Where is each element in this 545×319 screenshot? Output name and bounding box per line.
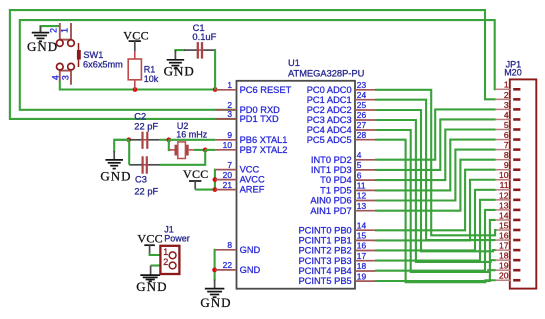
svg-text:22 pF: 22 pF — [134, 186, 158, 196]
wire GND2 to C1 — [175, 50, 185, 52]
svg-text:16 mHz: 16 mHz — [176, 130, 208, 140]
IC U1 ATMEGA328P-PU body — [237, 81, 356, 289]
label Power — [164, 234, 190, 244]
svg-text:PCINT5 PB5: PCINT5 PB5 — [298, 276, 351, 286]
wire XTAL1 node to IC pin9 — [169, 139, 216, 141]
label J1 — [164, 225, 174, 235]
wire IC pin 24 to JP1 pin 16 — [375, 100, 496, 240]
junction at AREF pin21 — [213, 187, 218, 192]
JP1 pin 10 — [495, 170, 520, 180]
svg-text:GND: GND — [240, 265, 261, 275]
wire IC pin 13 to JP1 pin 8 — [375, 160, 496, 211]
pin number 1 of SW1 — [60, 28, 70, 33]
IC U1 pin 17 PCINT3 PB3 (right) — [298, 251, 375, 266]
svg-text:INT0 PD2: INT0 PD2 — [311, 155, 352, 165]
wire IC pin 18 to JP1 pin 13 — [375, 210, 496, 271]
IC U1 pin 14 PCINT0 PB0 (right) — [298, 220, 375, 235]
svg-text:GND: GND — [240, 245, 261, 255]
IC U1 pin 7 VCC (left) — [215, 160, 259, 175]
label 22 pF C3 — [134, 186, 158, 196]
svg-text:VCC: VCC — [183, 167, 209, 181]
svg-text:28: 28 — [357, 130, 367, 140]
power VCC3 symbol (at J1) — [137, 231, 163, 254]
svg-text:16: 16 — [499, 230, 509, 240]
capacitor C1 0.1uF — [184, 42, 215, 59]
IC U1 pin 21 AREF (left) — [215, 180, 264, 195]
svg-text:PC4 ADC4: PC4 ADC4 — [307, 125, 352, 135]
svg-text:17: 17 — [499, 241, 509, 251]
label C2 — [134, 112, 146, 122]
wire IC pin 16 to JP1 pin 11 — [375, 190, 496, 251]
svg-text:PCINT4 PB4: PCINT4 PB4 — [298, 266, 351, 276]
power VCC2 symbol — [183, 167, 209, 189]
svg-text:7: 7 — [227, 160, 232, 170]
svg-text:16: 16 — [357, 241, 367, 251]
connector JP1 M20 body — [510, 79, 537, 288]
svg-text:14: 14 — [357, 220, 367, 230]
power VCC1 symbol — [123, 28, 149, 51]
wire VCC3 to J1 pin1 — [150, 253, 161, 255]
svg-text:2: 2 — [163, 257, 168, 267]
wire IC pin 4 to JP1 pin 3 — [375, 109, 496, 159]
junction node XTAL1 — [166, 137, 171, 142]
svg-text:23: 23 — [357, 80, 367, 90]
wire C3 to C2 junction riser — [128, 140, 130, 165]
IC U1 pin 4 INT0 PD2 (right) — [311, 150, 375, 165]
wire XTAL2 node down to C3 — [160, 150, 206, 165]
JP1 pin 7 — [495, 140, 520, 150]
svg-text:PC6 RESET: PC6 RESET — [240, 85, 292, 95]
svg-text:GND: GND — [100, 168, 131, 183]
JP1 pin 20 — [495, 271, 520, 281]
svg-text:20: 20 — [499, 271, 509, 281]
label 0.1uF — [192, 31, 216, 42]
label JP1 — [506, 59, 522, 69]
svg-text:10k: 10k — [144, 74, 159, 84]
J1 pin 2 — [163, 257, 176, 269]
label U1 — [288, 58, 300, 68]
svg-text:PC5 ADC5: PC5 ADC5 — [307, 135, 352, 145]
wire IC pin 6 to JP1 pin 5 — [375, 130, 496, 181]
svg-text:PC2 ADC2: PC2 ADC2 — [307, 105, 352, 115]
JP1 pin 19 — [495, 261, 520, 271]
label U2 — [177, 121, 189, 131]
wire IC pin 17 to JP1 pin 12 — [375, 200, 496, 261]
JP1 pin 4 — [495, 110, 520, 120]
JP1 pin 3 — [495, 100, 520, 110]
svg-text:VCC: VCC — [240, 165, 260, 175]
label 10k — [144, 74, 159, 84]
IC U1 pin 9 PB6 XTAL1 (left) — [215, 130, 287, 145]
wire net RXD from IC pin2 around left/top to JP1 pin1 — [20, 20, 496, 110]
svg-text:PC3 ADC3: PC3 ADC3 — [307, 115, 352, 125]
svg-text:10: 10 — [499, 170, 509, 180]
junction left of C2 — [126, 137, 131, 142]
svg-text:C2: C2 — [134, 112, 146, 122]
junction at AVCC pin20 — [213, 177, 218, 182]
wire IC pin 27 to JP1 pin 19 (jog) — [375, 130, 496, 272]
label 6x6x5mm — [83, 60, 123, 70]
svg-text:PCINT0 PB0: PCINT0 PB0 — [298, 225, 351, 235]
wire crystal to XTAL2 node — [194, 149, 205, 151]
svg-text:4: 4 — [50, 75, 60, 80]
svg-text:15: 15 — [499, 220, 509, 230]
wire IC pin 25 to JP1 pin 17 (jog) — [375, 110, 496, 251]
svg-text:12: 12 — [357, 191, 367, 201]
svg-text:6: 6 — [357, 170, 362, 180]
svg-text:PC1 ADC1: PC1 ADC1 — [307, 95, 352, 105]
wire from GND1 to switch pin2 — [41, 26, 60, 32]
capacitor C3 22pF — [129, 156, 159, 173]
svg-text:SW1: SW1 — [83, 50, 103, 60]
svg-text:PD1 TXD: PD1 TXD — [240, 114, 279, 124]
ground GND5 (at J1) — [136, 266, 167, 295]
svg-text:PC0 ADC0: PC0 ADC0 — [307, 85, 352, 95]
svg-text:19: 19 — [357, 271, 367, 281]
svg-text:VCC: VCC — [123, 28, 149, 42]
svg-text:GND: GND — [136, 279, 167, 294]
JP1 pin 8 — [495, 150, 520, 160]
junction at R1 bottom — [133, 87, 138, 92]
ground GND2 (at C1) — [164, 50, 195, 78]
wire IC pin 19 to JP1 pin 14 — [375, 220, 496, 281]
wire IC pin 12 to JP1 pin 7 — [375, 150, 496, 201]
label M20 — [504, 68, 522, 78]
IC U1 pin 5 INT1 PD3 (right) — [311, 160, 375, 175]
IC U1 pin 27 PC4 ADC4 (right) — [307, 120, 375, 135]
label C3 — [135, 175, 147, 185]
svg-text:2: 2 — [49, 28, 59, 33]
crystal U2 16 mHz — [170, 142, 194, 159]
IC U1 pin 19 PCINT5 PB5 (right) — [298, 271, 375, 286]
svg-text:AVCC: AVCC — [240, 175, 265, 185]
IC U1 pin 22 GND (left) — [215, 260, 260, 275]
JP1 pin 12 — [495, 190, 520, 200]
JP1 pin 9 — [495, 160, 520, 170]
JP1 pin 17 — [495, 241, 520, 251]
svg-text:10: 10 — [223, 140, 233, 150]
wire C2 junction to mid GND — [114, 140, 129, 152]
JP1 pin 18 — [495, 251, 520, 261]
resistor R1 10k — [128, 51, 141, 89]
svg-text:1: 1 — [504, 80, 509, 90]
svg-text:11: 11 — [500, 180, 509, 190]
label C1 — [193, 22, 205, 33]
svg-text:6x6x5mm: 6x6x5mm — [83, 60, 123, 70]
IC U1 pin 1 PC6 RESET (left) — [215, 80, 291, 95]
svg-text:1: 1 — [163, 247, 168, 257]
pin number 2 of SW1 — [49, 28, 59, 33]
IC U1 pin 23 PC0 ADC0 (right) — [307, 80, 375, 95]
IC U1 pin 10 PB7 XTAL2 (left) — [215, 140, 287, 155]
wire VCC2 to AREF row — [195, 189, 215, 191]
svg-text:1: 1 — [227, 80, 232, 90]
svg-text:7: 7 — [504, 140, 509, 150]
IC U1 pin 11 T1 PD5 (right) — [320, 181, 375, 196]
JP1 pin 15 — [495, 220, 520, 230]
JP1 pin 2 — [495, 90, 520, 100]
wire IC pin 14 to JP1 pin 9 — [375, 170, 496, 231]
JP1 pin 6 — [495, 130, 520, 140]
svg-text:13: 13 — [499, 200, 509, 210]
svg-text:8: 8 — [227, 240, 232, 250]
IC U1 pin 6 T0 PD4 (right) — [320, 170, 375, 185]
svg-text:5: 5 — [357, 160, 362, 170]
svg-text:17: 17 — [357, 251, 367, 261]
svg-text:4: 4 — [504, 110, 509, 120]
IC U1 pin 13 AIN1 PD7 (right) — [310, 201, 375, 216]
wire XTAL1 node down to crystal — [169, 140, 171, 150]
JP1 pin 13 — [495, 200, 520, 210]
ground GND3 (mid left) — [100, 151, 131, 183]
wire GND riser pins 8-22 — [214, 250, 217, 281]
svg-text:VCC: VCC — [137, 231, 163, 245]
wire C1 to IC pin1 junction — [214, 50, 216, 89]
svg-text:T0 PD4: T0 PD4 — [320, 175, 352, 185]
JP1 pin 1 — [495, 80, 520, 90]
svg-text:18: 18 — [499, 251, 509, 261]
svg-text:4: 4 — [357, 150, 362, 160]
svg-text:INT1 PD3: INT1 PD3 — [311, 165, 352, 175]
IC U1 pin 3 PD1 TXD (left) — [215, 109, 279, 124]
ground GND1 (top-left) — [27, 26, 58, 54]
svg-text:1: 1 — [60, 28, 70, 33]
IC U1 pin 24 PC1 ADC1 (right) — [307, 90, 375, 105]
svg-text:27: 27 — [357, 120, 367, 130]
connector J1 Power box — [160, 246, 179, 274]
IC U1 pin 16 PCINT2 PB2 (right) — [298, 241, 375, 256]
svg-text:PB6 XTAL1: PB6 XTAL1 — [240, 135, 288, 145]
svg-text:PB7 XTAL2: PB7 XTAL2 — [240, 145, 288, 155]
wire IC pin 28 to JP1 pin 20 (jog) — [375, 140, 496, 283]
J1 pin 1 — [163, 247, 176, 259]
JP1 pin 5 — [495, 120, 520, 130]
svg-text:AIN1 PD7: AIN1 PD7 — [310, 206, 351, 216]
wire IC pin 26 to JP1 pin 18 (jog) — [375, 120, 496, 262]
svg-text:19: 19 — [499, 261, 509, 271]
IC U1 pin 20 AVCC (left) — [215, 170, 265, 185]
svg-text:11: 11 — [357, 181, 366, 191]
svg-text:3: 3 — [504, 100, 509, 110]
svg-text:U1: U1 — [288, 58, 300, 68]
IC U1 pin 2 PD0 RXD (left) — [215, 100, 280, 115]
svg-text:26: 26 — [357, 110, 367, 120]
wire IC pin 5 to JP1 pin 4 — [375, 119, 496, 169]
svg-text:AIN0 PD6: AIN0 PD6 — [310, 196, 351, 206]
svg-text:2: 2 — [504, 90, 509, 100]
svg-text:9: 9 — [504, 160, 509, 170]
wire VCC riser pins 7-20-21 — [214, 170, 217, 190]
svg-text:8: 8 — [504, 150, 509, 160]
svg-text:M20: M20 — [504, 68, 522, 78]
svg-text:PCINT3 PB3: PCINT3 PB3 — [298, 256, 351, 266]
capacitor C2 22pF — [129, 132, 160, 149]
svg-text:21: 21 — [223, 180, 233, 190]
label 16 mHz — [176, 130, 208, 140]
wire IC pin 15 to JP1 pin 10 — [375, 180, 496, 241]
svg-text:14: 14 — [499, 210, 509, 220]
IC U1 pin 18 PCINT4 PB4 (right) — [298, 261, 375, 276]
IC U1 pin 28 PC5 ADC5 (right) — [307, 130, 375, 145]
svg-text:5: 5 — [504, 120, 509, 130]
wire IC pin 23 to JP1 pin 15 (with jog) — [375, 90, 497, 236]
ground GND4 (below IC) — [200, 280, 231, 311]
svg-text:15: 15 — [357, 231, 367, 241]
JP1 pin 11 — [495, 180, 520, 190]
svg-text:3: 3 — [61, 75, 71, 80]
IC U1 pin 8 GND (left) — [215, 240, 260, 255]
switch SW1 6x6x5mm — [57, 23, 81, 85]
svg-text:9: 9 — [227, 130, 232, 140]
pin number 3 of SW1 — [61, 75, 71, 80]
wire switch pin4 to RESET row — [60, 81, 215, 90]
IC U1 pin 12 AIN0 PD6 (right) — [310, 191, 375, 206]
svg-text:AREF: AREF — [240, 185, 265, 195]
svg-text:Power: Power — [164, 234, 190, 244]
junction at GND pin22 — [212, 268, 217, 273]
svg-text:20: 20 — [223, 170, 233, 180]
label SW1 — [83, 50, 103, 60]
svg-text:22: 22 — [223, 260, 233, 270]
svg-text:T1 PD5: T1 PD5 — [320, 186, 352, 196]
wire XTAL2 node to IC pin10 — [205, 149, 215, 151]
label R1 — [144, 65, 156, 75]
wire mid-GND riser to C2 junction — [114, 139, 129, 141]
svg-text:24: 24 — [357, 90, 367, 100]
IC U1 pin 26 PC3 ADC3 (right) — [307, 110, 375, 125]
junction at IC pin1 — [213, 87, 218, 92]
junction node XTAL2 — [203, 148, 208, 153]
svg-text:6: 6 — [504, 130, 509, 140]
JP1 pin 16 — [495, 230, 520, 240]
svg-text:R1: R1 — [144, 65, 156, 75]
svg-text:C3: C3 — [135, 175, 147, 185]
svg-text:ATMEGA328P-PU: ATMEGA328P-PU — [288, 69, 364, 79]
wire IC pin 11 to JP1 pin 6 — [375, 140, 496, 191]
svg-text:GND: GND — [27, 39, 58, 54]
svg-text:12: 12 — [499, 190, 509, 200]
JP1 pin 14 — [495, 210, 520, 220]
IC U1 pin 25 PC2 ADC2 (right) — [307, 100, 375, 115]
svg-text:PCINT1 PB1: PCINT1 PB1 — [298, 236, 351, 246]
label 22 pF C2 — [134, 122, 158, 132]
svg-text:GND: GND — [200, 295, 231, 310]
svg-text:13: 13 — [357, 201, 367, 211]
label ATMEGA328P-PU — [288, 69, 364, 79]
wire GND5 to J1 pin2 — [151, 264, 161, 266]
wire net TXD from IC pin3 around left/top to JP1 pin2 — [10, 10, 496, 119]
svg-text:25: 25 — [357, 100, 367, 110]
wire C2 to XTAL1 node — [160, 139, 167, 141]
IC U1 pin 15 PCINT1 PB1 (right) — [298, 231, 375, 246]
svg-text:22 pF: 22 pF — [134, 122, 158, 132]
svg-text:18: 18 — [357, 261, 367, 271]
svg-text:0.1uF: 0.1uF — [192, 31, 216, 42]
pin number 4 of SW1 — [50, 75, 60, 80]
svg-text:PCINT2 PB2: PCINT2 PB2 — [298, 246, 351, 256]
svg-text:3: 3 — [227, 109, 232, 119]
svg-text:GND: GND — [164, 64, 195, 79]
